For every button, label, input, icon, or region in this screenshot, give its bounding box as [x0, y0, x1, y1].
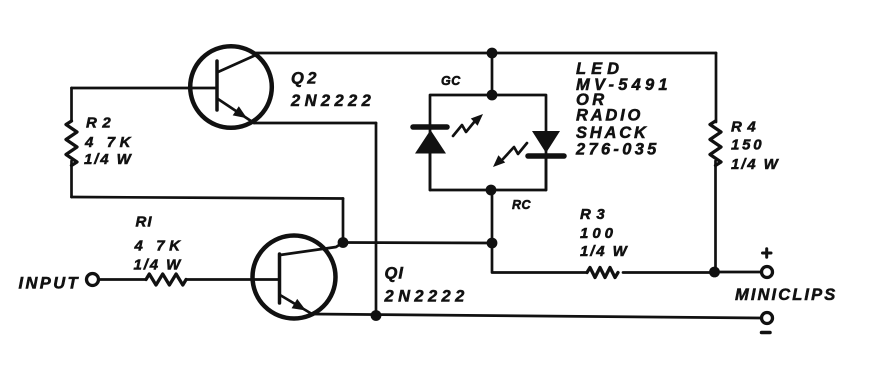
svg-text:MINICLIPS: MINICLIPS	[735, 286, 837, 304]
svg-text:GC: GC	[441, 74, 461, 88]
wire Q2 emitter vertical to bottom rail	[375, 123, 378, 316]
svg-text:RI: RI	[136, 214, 153, 231]
transistor Q2 base bar	[215, 61, 219, 110]
node on top rail	[487, 48, 498, 59]
resistor R4	[710, 121, 721, 166]
svg-text:4 7K: 4 7K	[134, 238, 185, 255]
svg-text:276-035: 276-035	[575, 141, 660, 159]
diode D1 lead below	[429, 153, 432, 190]
wire R4 bottom to plus node	[714, 161, 717, 272]
svg-text:RC: RC	[512, 198, 532, 212]
resistor R2	[66, 121, 77, 166]
label minus sign	[762, 331, 771, 335]
svg-text:RADIO: RADIO	[576, 107, 643, 125]
svg-text:R2: R2	[86, 115, 116, 132]
transistor Q1 emitter stroke	[280, 295, 312, 314]
wire RC node down and right to R3	[492, 243, 587, 273]
wire right vertical down to R4	[715, 53, 718, 122]
wire Q2 base	[72, 87, 218, 90]
node emitter-bottom-rail junction	[371, 310, 382, 321]
node junction at plus rail	[709, 267, 720, 278]
wire down to Q1 collector node	[342, 199, 345, 243]
diode D1 light arrow	[453, 114, 483, 136]
node Q1 collector junction	[338, 237, 349, 248]
node GC	[487, 90, 498, 101]
svg-text:1/4 W: 1/4 W	[84, 151, 133, 168]
diode D2 lead below	[545, 156, 548, 190]
wire R1 to Q1 base	[186, 278, 279, 281]
wire Q2 emitter horizontal	[254, 122, 376, 125]
transistor Q2 circle	[190, 46, 272, 128]
node RC lower junction	[487, 238, 498, 249]
transistor Q2 emitter arrow	[233, 106, 247, 118]
transistor Q2 emitter stroke	[218, 99, 254, 123]
diode D2 right LED triangle	[532, 131, 560, 153]
svg-text:1/4 W: 1/4 W	[580, 243, 629, 260]
diode D2 light arrow	[493, 143, 527, 167]
svg-text:100: 100	[580, 225, 617, 242]
svg-text:INPUT: INPUT	[19, 275, 81, 293]
resistor R3	[587, 268, 618, 278]
diode D2 right LED cathode bar	[528, 153, 564, 159]
transistor Q1 emitter arrow	[292, 299, 306, 311]
node RC	[486, 185, 497, 196]
LED box outline	[430, 95, 546, 190]
resistor R1	[146, 274, 186, 285]
svg-text:QI: QI	[385, 265, 404, 283]
label plus sign	[763, 249, 772, 257]
wire INPUT to R1	[99, 278, 146, 281]
svg-text:2N2222: 2N2222	[384, 288, 469, 306]
transistor Q1 base bar	[278, 254, 282, 303]
wire top rail (Q2 collector to upper-right corner)	[253, 52, 716, 55]
wire node to plus clip	[716, 271, 761, 274]
terminal minus miniclip	[762, 313, 773, 324]
wire GC vertical from top rail to LED box	[491, 53, 494, 95]
transistor Q1 circle	[253, 236, 336, 319]
wire R3 to plus node	[623, 271, 711, 274]
wire RC vertical from box to collector rail	[491, 190, 494, 243]
transistor Q2 collector stroke	[218, 54, 258, 72]
wire R2 bottom vertical	[70, 161, 73, 197]
svg-text:4 7K: 4 7K	[84, 134, 135, 151]
diode D1 left LED triangle	[415, 130, 446, 154]
svg-text:1/4 W: 1/4 W	[731, 156, 780, 173]
svg-text:150: 150	[731, 137, 764, 154]
diode D1 left LED cathode bar	[413, 124, 447, 130]
terminal INPUT circle	[87, 274, 99, 286]
svg-text:R4: R4	[731, 119, 761, 136]
terminal plus miniclip	[762, 267, 773, 278]
wire collector rail (Q1 collector node to RC node)	[343, 241, 492, 244]
wire bottom rail	[311, 314, 761, 318]
svg-text:Q2: Q2	[291, 70, 320, 88]
transistor Q1 collector stroke	[280, 243, 343, 256]
wire R2 bottom horizontal	[72, 197, 344, 199]
wire R2 top vertical	[70, 88, 73, 121]
svg-text:SHACK: SHACK	[576, 124, 649, 142]
svg-text:1/4 W: 1/4 W	[134, 257, 183, 274]
svg-text:2N2222: 2N2222	[290, 92, 375, 110]
svg-text:R3: R3	[580, 206, 610, 223]
